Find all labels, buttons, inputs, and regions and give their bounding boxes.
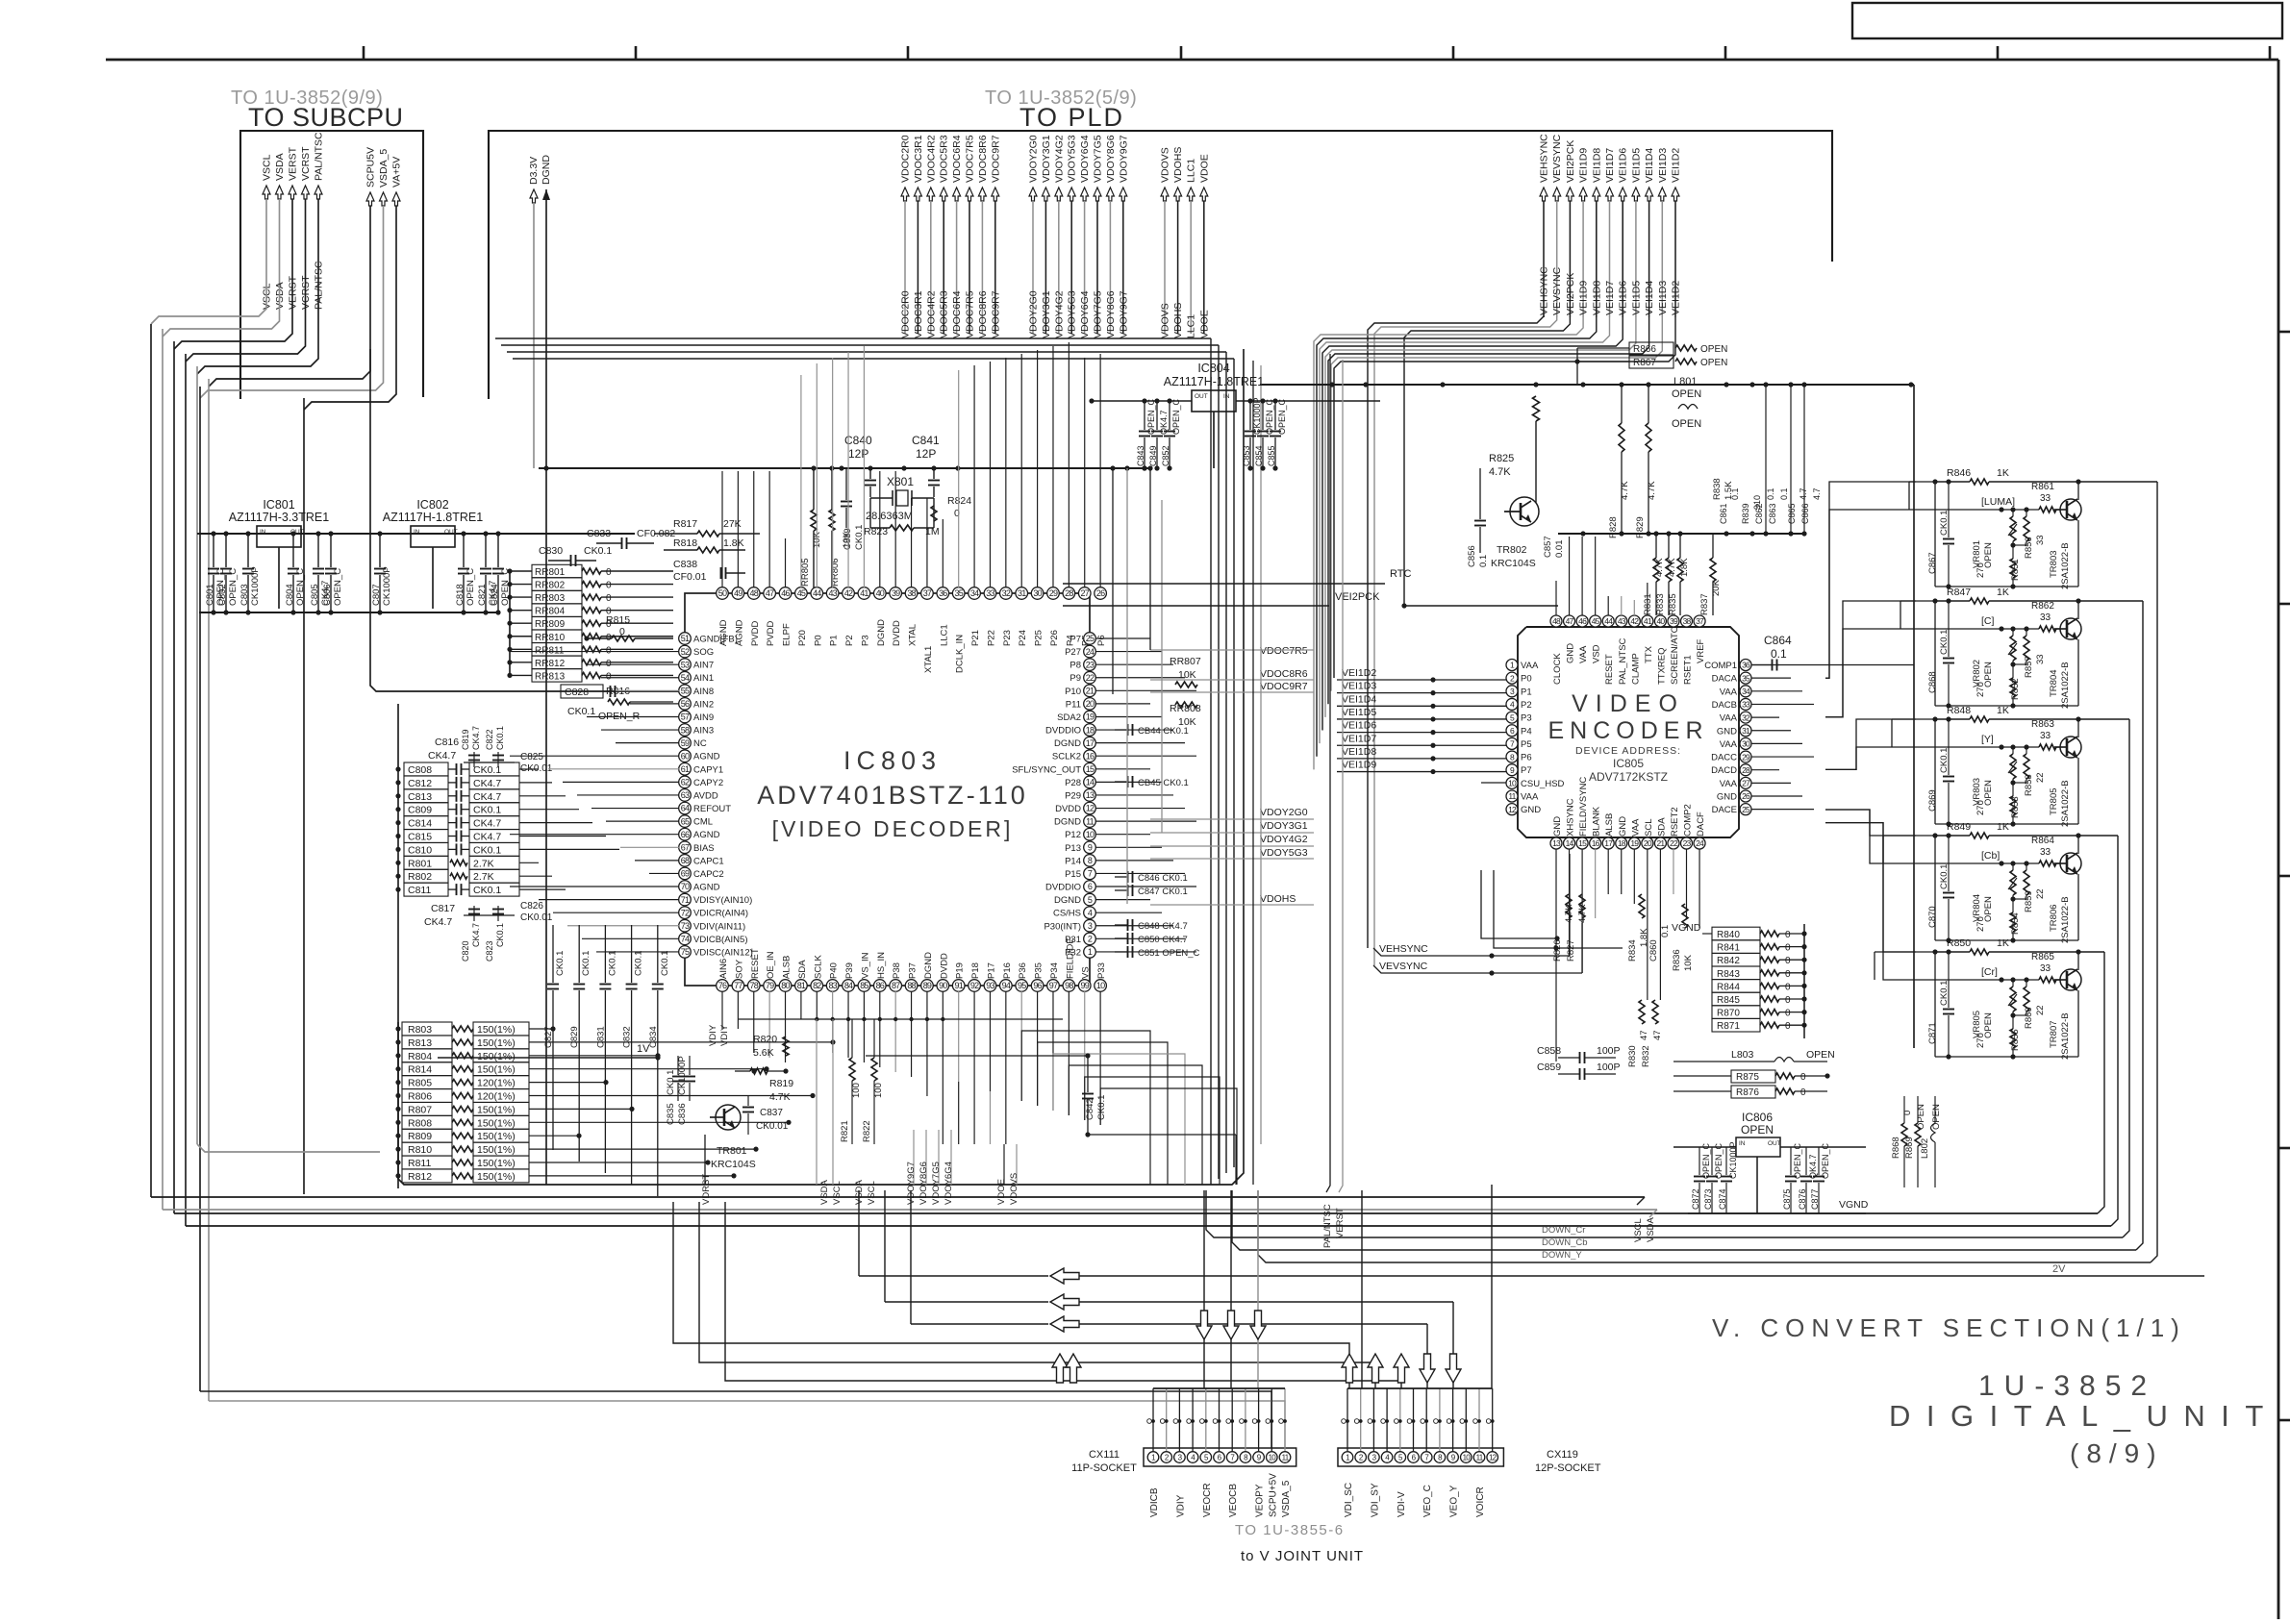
wire VEHSYNC [1368, 316, 1544, 948]
capacitor C848 CK4.7 [1115, 924, 1127, 926]
transistor TR803 2SA1022-B [2060, 499, 2081, 520]
down arrows to V joint 2 [1420, 1354, 1435, 1383]
IC803 pin 52 SOG [679, 645, 692, 658]
IC803 pin 33 P22 [984, 587, 996, 600]
IC803 pin 77 SOY [732, 980, 744, 992]
svg-text:58: 58 [681, 725, 690, 735]
svg-text:22: 22 [2035, 772, 2046, 783]
wire VSCL drop to CX119 [1452, 1302, 1454, 1388]
svg-text:33: 33 [2040, 847, 2051, 858]
svg-text:CK0.1: CK0.1 [1939, 511, 1950, 536]
svg-text:TR805: TR805 [2049, 787, 2059, 815]
svg-text:C824: C824 [490, 584, 500, 606]
svg-text:R810: R810 [408, 1144, 432, 1156]
IC803 pin 82 SCLK [811, 980, 823, 992]
svg-text:150(1%): 150(1%) [477, 1064, 516, 1076]
transistor TR801 KRC104S [716, 1105, 741, 1130]
IC803 pin 74 VDICB(AIN5) [679, 933, 692, 945]
svg-text:OPEN: OPEN [1672, 388, 1701, 400]
svg-text:C873: C873 [1703, 1188, 1713, 1210]
svg-text:41: 41 [1644, 616, 1652, 626]
wire to pin [1555, 581, 1557, 615]
svg-text:120(1%): 120(1%) [477, 1078, 516, 1089]
svg-text:82: 82 [813, 981, 821, 990]
IC805 pin 40 TTXREQ [1654, 615, 1666, 627]
svg-text:OPEN_C: OPEN_C [1146, 398, 1156, 435]
svg-text:P5: P5 [1521, 739, 1532, 750]
svg-text:0.01: 0.01 [1554, 540, 1565, 559]
svg-text:RESET: RESET [750, 948, 761, 979]
svg-text:74: 74 [681, 935, 690, 944]
svg-text:R847: R847 [1947, 587, 1971, 598]
wire output drop [2136, 601, 2143, 1250]
svg-text:100: 100 [851, 1083, 862, 1098]
wire sda drop [816, 1019, 818, 1185]
svg-text:VDOY7G5: VDOY7G5 [1093, 290, 1104, 338]
wire IC805 right stub [1751, 769, 1779, 771]
svg-text:12P-SOCKET: 12P-SOCKET [1535, 1462, 1601, 1474]
svg-text:C816: C816 [435, 737, 459, 748]
IC805 pin 46 VAA [1576, 615, 1588, 627]
svg-text:P6: P6 [1096, 635, 1107, 646]
svg-text:P18: P18 [970, 962, 981, 979]
wire from pin [1621, 849, 1623, 894]
svg-text:P36: P36 [1018, 962, 1028, 979]
svg-text:P28: P28 [1065, 778, 1081, 788]
svg-text:SCPU5V: SCPU5V [365, 147, 377, 187]
svg-text:AGND: AGND [693, 752, 720, 762]
wire from pin [894, 991, 896, 1072]
svg-text:CAPC1: CAPC1 [693, 856, 724, 866]
svg-text:OPEN: OPEN [1700, 358, 1727, 368]
svg-text:R804: R804 [408, 1051, 432, 1062]
svg-text:C869: C869 [1927, 789, 1938, 812]
IC805 pin 31 GND [1740, 725, 1751, 737]
svg-text:4.7: 4.7 [1812, 487, 1822, 500]
svg-text:SCLK2: SCLK2 [1052, 752, 1081, 762]
svg-text:68: 68 [681, 856, 690, 865]
svg-text:P1: P1 [829, 635, 840, 646]
svg-text:OPEN: OPEN [1672, 418, 1701, 430]
svg-text:P38: P38 [892, 962, 902, 979]
IC805 pin 4 P2 [1506, 698, 1518, 710]
wire from pin [800, 991, 802, 1019]
wire IC803 right pin stub [1095, 677, 1185, 679]
svg-text:42: 42 [1630, 616, 1639, 626]
svg-text:0: 0 [1785, 956, 1791, 966]
svg-text:AIN9: AIN9 [693, 712, 714, 723]
svg-text:C870: C870 [1927, 906, 1938, 928]
wire VEI1D5 [1325, 317, 1636, 717]
svg-text:34: 34 [970, 588, 979, 598]
svg-text:RSET1: RSET1 [1683, 655, 1694, 685]
svg-text:25: 25 [1742, 805, 1750, 814]
resistor R870 0 [1712, 1006, 1760, 1019]
svg-text:31: 31 [1742, 726, 1750, 736]
svg-text:CK0.1: CK0.1 [634, 951, 644, 976]
svg-text:P26: P26 [1049, 630, 1060, 646]
svg-text:CAPC2: CAPC2 [693, 869, 724, 880]
svg-text:49: 49 [734, 588, 742, 598]
svg-text:VAA: VAA [1578, 645, 1589, 663]
svg-text:VDOY6G4: VDOY6G4 [944, 1162, 954, 1205]
svg-text:48: 48 [1552, 616, 1561, 626]
IC805 pin 8 P6 [1506, 751, 1518, 762]
svg-text:2SA1022-B: 2SA1022-B [2060, 662, 2071, 709]
svg-text:C875: C875 [1782, 1188, 1792, 1210]
wire IC805 right stub [1751, 730, 1791, 732]
svg-text:IC805: IC805 [1613, 757, 1644, 770]
svg-text:L801: L801 [1673, 376, 1697, 387]
IC803 pin 41 P3 [858, 587, 870, 600]
svg-text:46: 46 [781, 588, 790, 598]
IC803 pin 2 P31 [1084, 933, 1096, 945]
IC805 pin 37 VREF [1694, 615, 1705, 627]
svg-text:X801: X801 [887, 475, 914, 488]
wire from pin [911, 991, 913, 1077]
svg-text:78: 78 [750, 981, 759, 990]
svg-text:1K: 1K [1997, 467, 2009, 479]
border tick [2278, 1419, 2290, 1422]
svg-text:18: 18 [1618, 838, 1626, 848]
wire pot join [2013, 782, 2026, 784]
svg-text:P3: P3 [1521, 713, 1532, 724]
wire middle vertical 6 [1260, 365, 1262, 1144]
svg-text:VDOC7R5: VDOC7R5 [965, 290, 976, 338]
IC803 pin 93 P17 [984, 980, 996, 992]
IC803 pin 26 P6 [1095, 587, 1107, 600]
svg-text:VDOY7G5: VDOY7G5 [1093, 135, 1104, 183]
svg-text:C814: C814 [408, 818, 432, 830]
svg-text:BIAS: BIAS [693, 843, 715, 854]
svg-text:DGND: DGND [541, 155, 552, 185]
svg-text:CK0.1: CK0.1 [1096, 1095, 1107, 1120]
wire to pin [577, 794, 679, 796]
svg-text:VEOPY: VEOPY [1255, 1484, 1266, 1517]
svg-text:IC802: IC802 [416, 498, 448, 512]
wire to pin [553, 912, 679, 913]
svg-text:0.1: 0.1 [1730, 487, 1740, 500]
svg-text:R821: R821 [840, 1120, 850, 1142]
svg-text:VEI1D2: VEI1D2 [1342, 667, 1376, 679]
svg-text:VDOY8G6: VDOY8G6 [1105, 135, 1117, 183]
svg-text:37: 37 [923, 588, 932, 598]
svg-text:98: 98 [1065, 981, 1073, 990]
svg-text:90: 90 [939, 981, 947, 990]
border tick [2278, 875, 2290, 878]
svg-text:IC806: IC806 [1742, 1111, 1773, 1124]
wire to pin [785, 538, 787, 587]
resistor R875 0 [1731, 1070, 1775, 1083]
capacitor C847 CK0.1 [1115, 889, 1127, 891]
wire output drop [2151, 482, 2157, 1262]
wire IC803 right pin stub [1095, 651, 1162, 653]
capacitor C810 CK0.1 [404, 842, 448, 856]
svg-text:26: 26 [1742, 791, 1750, 801]
svg-text:1V: 1V [637, 1043, 650, 1055]
svg-text:270: 270 [1975, 682, 1986, 697]
wire from pin [816, 991, 818, 1019]
IC803 pin 36 LLC1 [937, 587, 949, 600]
IC803 pin 75 VDISC(AIN12) [679, 946, 692, 959]
IC805 pin 28 DACD [1740, 764, 1751, 776]
wire output [2078, 718, 2129, 720]
svg-text:97: 97 [1049, 981, 1058, 990]
wire dac feed [1825, 482, 1916, 678]
svg-text:KRC104S: KRC104S [711, 1159, 756, 1170]
svg-text:LLC1: LLC1 [1186, 314, 1197, 338]
wire VDOE drop to CX119 [1203, 1190, 1205, 1388]
svg-text:23: 23 [1683, 838, 1692, 848]
svg-text:P19: P19 [955, 962, 966, 979]
svg-text:[VIDEO DECODER]: [VIDEO DECODER] [772, 816, 1014, 841]
svg-text:AZ1117H-3.3TRE1: AZ1117H-3.3TRE1 [229, 511, 329, 524]
IC IC803 ADV7401BSTZ-110 video decoder body [685, 593, 1090, 986]
svg-text:R837: R837 [1699, 593, 1710, 615]
IC IC805 ADV7172KSTZ video encoder body [1518, 627, 1739, 837]
wire output drop [2123, 719, 2129, 1237]
svg-text:33: 33 [2040, 493, 2051, 504]
svg-text:R805: R805 [408, 1078, 432, 1089]
svg-text:CK1000P: CK1000P [382, 566, 392, 606]
svg-text:AZ1117H-1.8TRE1: AZ1117H-1.8TRE1 [383, 511, 483, 524]
svg-text:NC: NC [693, 738, 707, 749]
svg-text:VDOY4G2: VDOY4G2 [1053, 290, 1065, 338]
svg-text:RR810: RR810 [535, 633, 566, 643]
svg-text:DVDD: DVDD [1055, 804, 1081, 814]
svg-text:VEI1D4: VEI1D4 [1644, 281, 1655, 315]
wire IC803 right pin stub [1095, 937, 1185, 939]
IC805 pin 13 GND [1550, 837, 1562, 849]
svg-text:VS: VS [1081, 966, 1092, 979]
pld bus gather lines [495, 337, 1211, 339]
IC803 pin 76 AIN6 [717, 980, 729, 992]
svg-text:R863: R863 [2031, 719, 2054, 730]
svg-text:DVDD: DVDD [892, 620, 902, 646]
CX111 pin 1 [1147, 1452, 1159, 1463]
svg-text:270: 270 [1975, 1033, 1986, 1048]
capacitor C807 CK1000P [379, 534, 381, 567]
svg-text:VDOHS: VDOHS [1172, 303, 1184, 338]
svg-text:84: 84 [844, 981, 853, 990]
IC805 pin 23 COMP2 [1681, 837, 1693, 849]
svg-text:150(1%): 150(1%) [477, 1158, 516, 1169]
svg-text:VAA: VAA [1720, 687, 1738, 697]
svg-text:P6: P6 [1521, 753, 1532, 763]
wire IC805 right stub [1751, 782, 1791, 784]
svg-text:ADV7172KSTZ: ADV7172KSTZ [1589, 770, 1668, 784]
svg-text:V. CONVERT SECTION(1/1): V. CONVERT SECTION(1/1) [1712, 1313, 2186, 1342]
svg-text:VDI_SC: VDI_SC [1344, 1483, 1354, 1517]
svg-text:32: 32 [1002, 588, 1011, 598]
svg-text:DACF: DACF [1696, 812, 1706, 837]
svg-text:30: 30 [1033, 588, 1042, 598]
svg-text:CK0.1: CK0.1 [567, 706, 595, 717]
wire VEI1D3 [1331, 317, 1662, 691]
wire to pin [635, 860, 679, 862]
svg-text:CK4.7: CK4.7 [473, 818, 501, 830]
IC803 pin 98 FIELD/DE [1063, 980, 1075, 992]
svg-text:0: 0 [1785, 995, 1791, 1006]
svg-text:P10: P10 [1065, 687, 1081, 697]
resistor R809 150(1%) [402, 1129, 452, 1142]
IC805 pin 5 P3 [1506, 712, 1518, 723]
capacitor C854 OPEN_C [1262, 401, 1264, 430]
svg-text:R833: R833 [1655, 593, 1666, 615]
svg-text:TO 1U-3855-6: TO 1U-3855-6 [1235, 1522, 1345, 1538]
IC803 pin 56 AIN2 [679, 698, 692, 711]
wire ic806 rails [1673, 1146, 1736, 1148]
wire cascade run [1085, 1077, 1220, 1185]
svg-text:C852: C852 [1161, 445, 1170, 466]
resistor R804 150(1%) [402, 1049, 452, 1062]
IC805 pin 32 VAA [1740, 712, 1751, 723]
wire staircase run [673, 1202, 1349, 1388]
wire to pin [753, 471, 755, 587]
svg-text:VEI1D5: VEI1D5 [1342, 707, 1376, 718]
svg-text:R801: R801 [408, 858, 432, 869]
svg-text:VDOY6G4: VDOY6G4 [1079, 135, 1091, 183]
resistor R841 0 [1712, 940, 1760, 954]
svg-text:PAL/NTSC: PAL/NTSC [314, 132, 325, 181]
wire from pin [832, 991, 834, 1053]
svg-text:35: 35 [954, 588, 963, 598]
IC803 pin 60 AGND [679, 750, 692, 762]
svg-text:VDOC3R1: VDOC3R1 [913, 290, 924, 338]
capacitor C831 CK0.1 [604, 925, 606, 983]
svg-text:R849: R849 [1947, 821, 1971, 833]
svg-text:R869: R869 [1904, 1137, 1915, 1159]
svg-text:R814: R814 [408, 1064, 432, 1076]
svg-text:C855: C855 [1267, 445, 1276, 466]
svg-text:P39: P39 [844, 962, 855, 979]
svg-text:RR807: RR807 [1170, 656, 1201, 667]
IC805 pin 38 RSET1 [1681, 615, 1693, 627]
svg-text:C876: C876 [1798, 1188, 1807, 1210]
border tick [2269, 46, 2272, 60]
svg-text:0: 0 [1785, 930, 1791, 940]
svg-text:1K: 1K [1997, 821, 2009, 833]
svg-text:27: 27 [1742, 779, 1750, 788]
svg-text:75: 75 [681, 947, 690, 957]
svg-text:54: 54 [681, 673, 690, 683]
IC803 pin 11 DGND [1084, 815, 1096, 828]
wire IC803 right pin stub [1095, 663, 1173, 665]
resistor RR812 0 [532, 656, 582, 668]
wire VAA rail drop [1913, 385, 1915, 1048]
svg-text:OPEN: OPEN [1700, 344, 1727, 355]
svg-text:1U-3852: 1U-3852 [1978, 1370, 2156, 1402]
svg-text:P8: P8 [1070, 661, 1081, 671]
svg-text:81: 81 [797, 981, 806, 990]
regulator IC801 rail [197, 533, 635, 535]
IC803 pin 35 DCLK_IN [952, 587, 965, 600]
IC803 pin 44 P0 [811, 587, 823, 600]
svg-text:P37: P37 [908, 962, 919, 979]
IC803 pin 10 P12 [1084, 828, 1096, 840]
wire PAL/NTSC [197, 285, 318, 374]
IC805 pin 24 DACF [1694, 837, 1705, 849]
IC803 pin 64 REFOUT [679, 802, 692, 814]
svg-text:DACA: DACA [1712, 674, 1738, 685]
wire from pin [1633, 849, 1635, 904]
svg-text:CK4.7: CK4.7 [471, 726, 481, 750]
wire from pin [1659, 849, 1661, 1000]
wire to pin [587, 663, 679, 665]
IC805 pin 20 SCL [1642, 837, 1653, 849]
wire to pin [548, 768, 679, 770]
wire pot join [2013, 898, 2026, 900]
wire dac feed [1875, 951, 1935, 953]
net PAL/NTSC vertical [1326, 354, 1330, 1192]
svg-text:CK0.1: CK0.1 [473, 764, 501, 776]
svg-text:OPEN_C: OPEN_C [1793, 1142, 1802, 1179]
svg-text:51: 51 [681, 634, 690, 643]
wire from pin [753, 991, 755, 1053]
CX111 rail [1153, 1387, 1285, 1389]
svg-text:45: 45 [1592, 616, 1600, 626]
power rail 1.8V [539, 467, 1150, 469]
svg-text:R865: R865 [2031, 952, 2054, 962]
svg-text:SCLK: SCLK [813, 955, 823, 979]
wire to pin [1633, 600, 1635, 615]
left bus wires descending [150, 324, 152, 1197]
wire to pin [721, 471, 723, 587]
svg-text:ALSB: ALSB [782, 956, 793, 979]
svg-text:RTC: RTC [1390, 568, 1411, 580]
wire drop from decoder [858, 1190, 860, 1276]
svg-text:R844: R844 [1717, 982, 1740, 992]
svg-text:14: 14 [1566, 838, 1574, 848]
svg-text:150(1%): 150(1%) [477, 1144, 516, 1156]
svg-text:22: 22 [1086, 673, 1095, 683]
svg-text:RR803: RR803 [535, 593, 566, 604]
resistor R866 OPEN [1629, 342, 1673, 355]
svg-text:VDOY3G1: VDOY3G1 [1041, 135, 1052, 183]
svg-text:67: 67 [681, 842, 690, 852]
wire dac feed [1825, 810, 1916, 836]
capacitor C871 CK0.1 [1948, 952, 1950, 1008]
svg-text:CK0.1: CK0.1 [473, 805, 501, 816]
svg-text:VOICR: VOICR [1475, 1487, 1486, 1517]
svg-text:GND: GND [1521, 805, 1541, 815]
svg-text:P4: P4 [1521, 726, 1532, 737]
wire ic806 gnd rail [1688, 1212, 1866, 1214]
wire IC805 right stub [1751, 716, 1779, 718]
svg-text:DCLK_IN: DCLK_IN [955, 635, 966, 673]
svg-text:RR801: RR801 [535, 567, 566, 578]
wire IC803 right pin stub [1095, 886, 1196, 887]
IC803 pin 54 AIN1 [679, 671, 692, 684]
resistor R842 0 [1712, 953, 1760, 966]
svg-text:CF0.01: CF0.01 [673, 571, 707, 583]
wire IC803 right pin stub [1095, 925, 1173, 927]
svg-text:IC801: IC801 [263, 498, 294, 512]
svg-text:70: 70 [681, 882, 690, 891]
svg-text:20: 20 [1086, 699, 1095, 709]
IC803 pin 48 PVDD [747, 587, 760, 600]
CX111 pin 2 [1161, 1452, 1172, 1463]
svg-text:P24: P24 [1018, 630, 1028, 646]
wire block left edge [1934, 482, 1936, 587]
svg-text:AGND: AGND [693, 883, 720, 893]
svg-text:VDOY8G6: VDOY8G6 [919, 1162, 929, 1205]
svg-text:TTX: TTX [1644, 645, 1654, 663]
svg-text:DIGITAL_UNIT: DIGITAL_UNIT [1889, 1399, 2279, 1433]
svg-text:DOWN_Cb: DOWN_Cb [1542, 1237, 1588, 1248]
svg-text:OPEN_C: OPEN_C [333, 568, 343, 606]
svg-text:ELPF: ELPF [782, 623, 793, 646]
